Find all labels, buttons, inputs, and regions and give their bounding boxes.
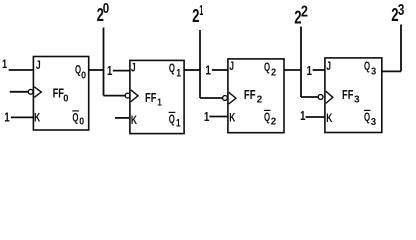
label FF0 — [53, 87, 69, 105]
svg-text:2: 2 — [192, 5, 199, 26]
wire: 2^2 riser — [300, 27, 302, 98]
clock bubble of FF1 — [125, 93, 130, 98]
wire: 2^1 riser — [199, 30, 201, 98]
constant 1 at J input of FF2 — [205, 63, 211, 78]
svg-text:1: 1 — [300, 108, 306, 123]
svg-text:2: 2 — [271, 68, 277, 79]
net label 2^2 — [294, 3, 308, 27]
label FF3 — [342, 88, 360, 106]
svg-text:1: 1 — [199, 2, 203, 19]
svg-text:Q: Q — [364, 110, 370, 124]
constant 1 at K input of FF0 — [4, 109, 10, 124]
pin label Q3-bar of FF3 — [364, 110, 376, 128]
svg-text:Q: Q — [72, 111, 78, 125]
pin label J of FF1 — [131, 61, 136, 75]
pin label Q2-bar of FF2 — [264, 110, 276, 128]
svg-text:J: J — [326, 59, 331, 73]
svg-text:Q: Q — [264, 60, 270, 74]
flip-flop FF3 box — [325, 58, 382, 133]
clock bubble of FF0 — [28, 89, 33, 94]
svg-text:1: 1 — [176, 118, 181, 130]
constant 1 at K input of FF3 — [300, 108, 306, 123]
svg-text:J: J — [36, 58, 41, 72]
wire: Q0 output stub — [89, 69, 104, 71]
flip-flop FF0 box — [33, 57, 88, 131]
svg-text:Q: Q — [364, 59, 370, 73]
svg-text:1: 1 — [107, 63, 113, 78]
wire: 1 to J pin of FF3 — [313, 69, 325, 71]
wire: stub to K pin of FF1 — [115, 117, 130, 119]
net label 2^0 — [97, 1, 110, 25]
wire: clock feed to FF3 — [301, 96, 318, 98]
svg-text:0: 0 — [81, 71, 86, 82]
svg-text:0: 0 — [103, 1, 109, 17]
constant 1 at J input of FF1 — [107, 63, 113, 78]
constant 1 at J input of FF0 — [2, 57, 7, 71]
svg-text:0: 0 — [63, 93, 68, 105]
constant 1 at J input of FF3 — [307, 63, 313, 78]
flip-flop FF2 box — [228, 59, 284, 133]
pin label K of FF0 — [34, 110, 40, 124]
svg-text:3: 3 — [371, 116, 377, 128]
svg-text:FF: FF — [145, 91, 157, 105]
svg-text:0: 0 — [79, 117, 84, 128]
svg-text:1: 1 — [307, 63, 313, 78]
wire: clock feed to FF1 — [104, 95, 126, 97]
svg-text:2: 2 — [301, 3, 308, 20]
svg-text:1: 1 — [4, 109, 10, 124]
clock edge triangle of FF1 — [131, 90, 138, 102]
net label 2^3 — [391, 2, 404, 25]
svg-text:Q: Q — [169, 61, 175, 75]
svg-text:Q: Q — [169, 112, 175, 126]
pin label K of FF2 — [229, 111, 235, 125]
net label 2^1 — [192, 2, 203, 26]
label FF2 — [244, 88, 262, 106]
svg-text:1: 1 — [204, 109, 210, 124]
clock edge triangle of FF3 — [326, 91, 333, 103]
wire: 1 to K pin of FF2 — [209, 116, 227, 118]
svg-text:1: 1 — [176, 68, 181, 80]
wire: clock feed to FF2 — [200, 97, 223, 99]
svg-text:Q: Q — [264, 110, 270, 124]
clock edge triangle of FF2 — [229, 92, 236, 104]
svg-text:1: 1 — [2, 57, 7, 71]
constant 1 at K input of FF2 — [204, 109, 210, 124]
wire: Q2 output stub — [284, 69, 301, 71]
wire: Q1 output stub — [184, 69, 200, 71]
svg-text:FF: FF — [244, 88, 256, 102]
svg-text:K: K — [131, 113, 137, 127]
pin label Q0 of FF0 — [75, 63, 86, 82]
pin label Q1 of FF1 — [169, 61, 181, 80]
wire: 1 to K pin of FF3 — [306, 116, 325, 118]
pin label J of FF0 — [36, 58, 41, 72]
svg-text:3: 3 — [398, 2, 405, 19]
svg-text:FF: FF — [342, 88, 354, 102]
svg-text:2: 2 — [271, 116, 277, 128]
pin label Q1-bar of FF1 — [169, 112, 181, 130]
wire: 2^3 riser — [400, 25, 402, 72]
wire: 2^0 riser — [103, 28, 105, 96]
svg-text:K: K — [229, 111, 235, 125]
wire: Q3 output stub — [382, 70, 402, 72]
svg-text:1: 1 — [205, 63, 211, 78]
label FF1 — [145, 91, 162, 108]
wire: 1 to J pin of FF1 — [113, 70, 130, 72]
pin label Q2 of FF2 — [264, 60, 277, 79]
pin label J of FF2 — [229, 59, 234, 73]
wire: 1 to K pin of FF0 — [11, 116, 33, 118]
wire: clock input of FF0 — [10, 91, 29, 93]
svg-text:K: K — [34, 110, 40, 124]
flip-flop FF1 box — [130, 60, 184, 133]
wire: 1 to J pin of FF2 — [212, 69, 228, 71]
pin label K of FF1 — [131, 113, 137, 127]
pin label K of FF3 — [326, 111, 332, 125]
pin label Q3 of FF3 — [364, 59, 377, 78]
svg-text:J: J — [131, 61, 136, 75]
svg-text:J: J — [229, 59, 234, 73]
pin label J of FF3 — [326, 59, 331, 73]
svg-text:K: K — [326, 111, 332, 125]
clock edge triangle of FF0 — [34, 87, 41, 98]
clock bubble of FF3 — [318, 95, 323, 100]
pin label Q0-bar of FF0 — [72, 110, 84, 127]
clock bubble of FF2 — [223, 96, 228, 101]
wire: 1 to J pin of FF0 — [9, 69, 33, 71]
svg-text:1: 1 — [157, 96, 162, 108]
svg-text:2: 2 — [257, 94, 263, 106]
svg-text:3: 3 — [354, 94, 360, 106]
svg-text:3: 3 — [371, 67, 377, 78]
